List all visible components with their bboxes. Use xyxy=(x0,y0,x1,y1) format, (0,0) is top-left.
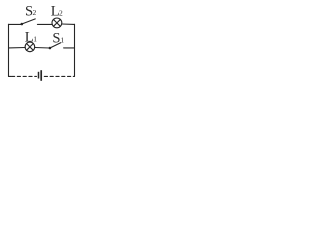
lamp L2 xyxy=(52,18,62,28)
svg-text:2: 2 xyxy=(33,8,37,17)
svg-text:1: 1 xyxy=(33,34,37,43)
wire middle left segment xyxy=(9,47,26,49)
wire middle segment xyxy=(35,47,50,50)
label S2 xyxy=(25,3,37,19)
svg-text:1: 1 xyxy=(60,36,64,45)
lamp L1 xyxy=(25,42,35,52)
label S1 xyxy=(52,30,64,46)
switch S2 xyxy=(21,19,36,25)
wire bottom dashed left xyxy=(9,75,12,77)
svg-text:2: 2 xyxy=(59,8,63,17)
battery B1 xyxy=(39,70,42,81)
svg-text:S: S xyxy=(52,30,60,46)
wire middle right segment xyxy=(64,47,75,49)
wire right rail xyxy=(74,24,76,76)
wire top left segment xyxy=(9,23,22,25)
wire left rail xyxy=(8,24,10,76)
switch S1 xyxy=(49,43,61,50)
label L1 xyxy=(25,30,38,46)
wire top right segment xyxy=(62,23,75,25)
wire top middle segment xyxy=(37,23,52,25)
label L2 xyxy=(51,3,63,19)
wire bottom dashed right xyxy=(44,75,74,77)
